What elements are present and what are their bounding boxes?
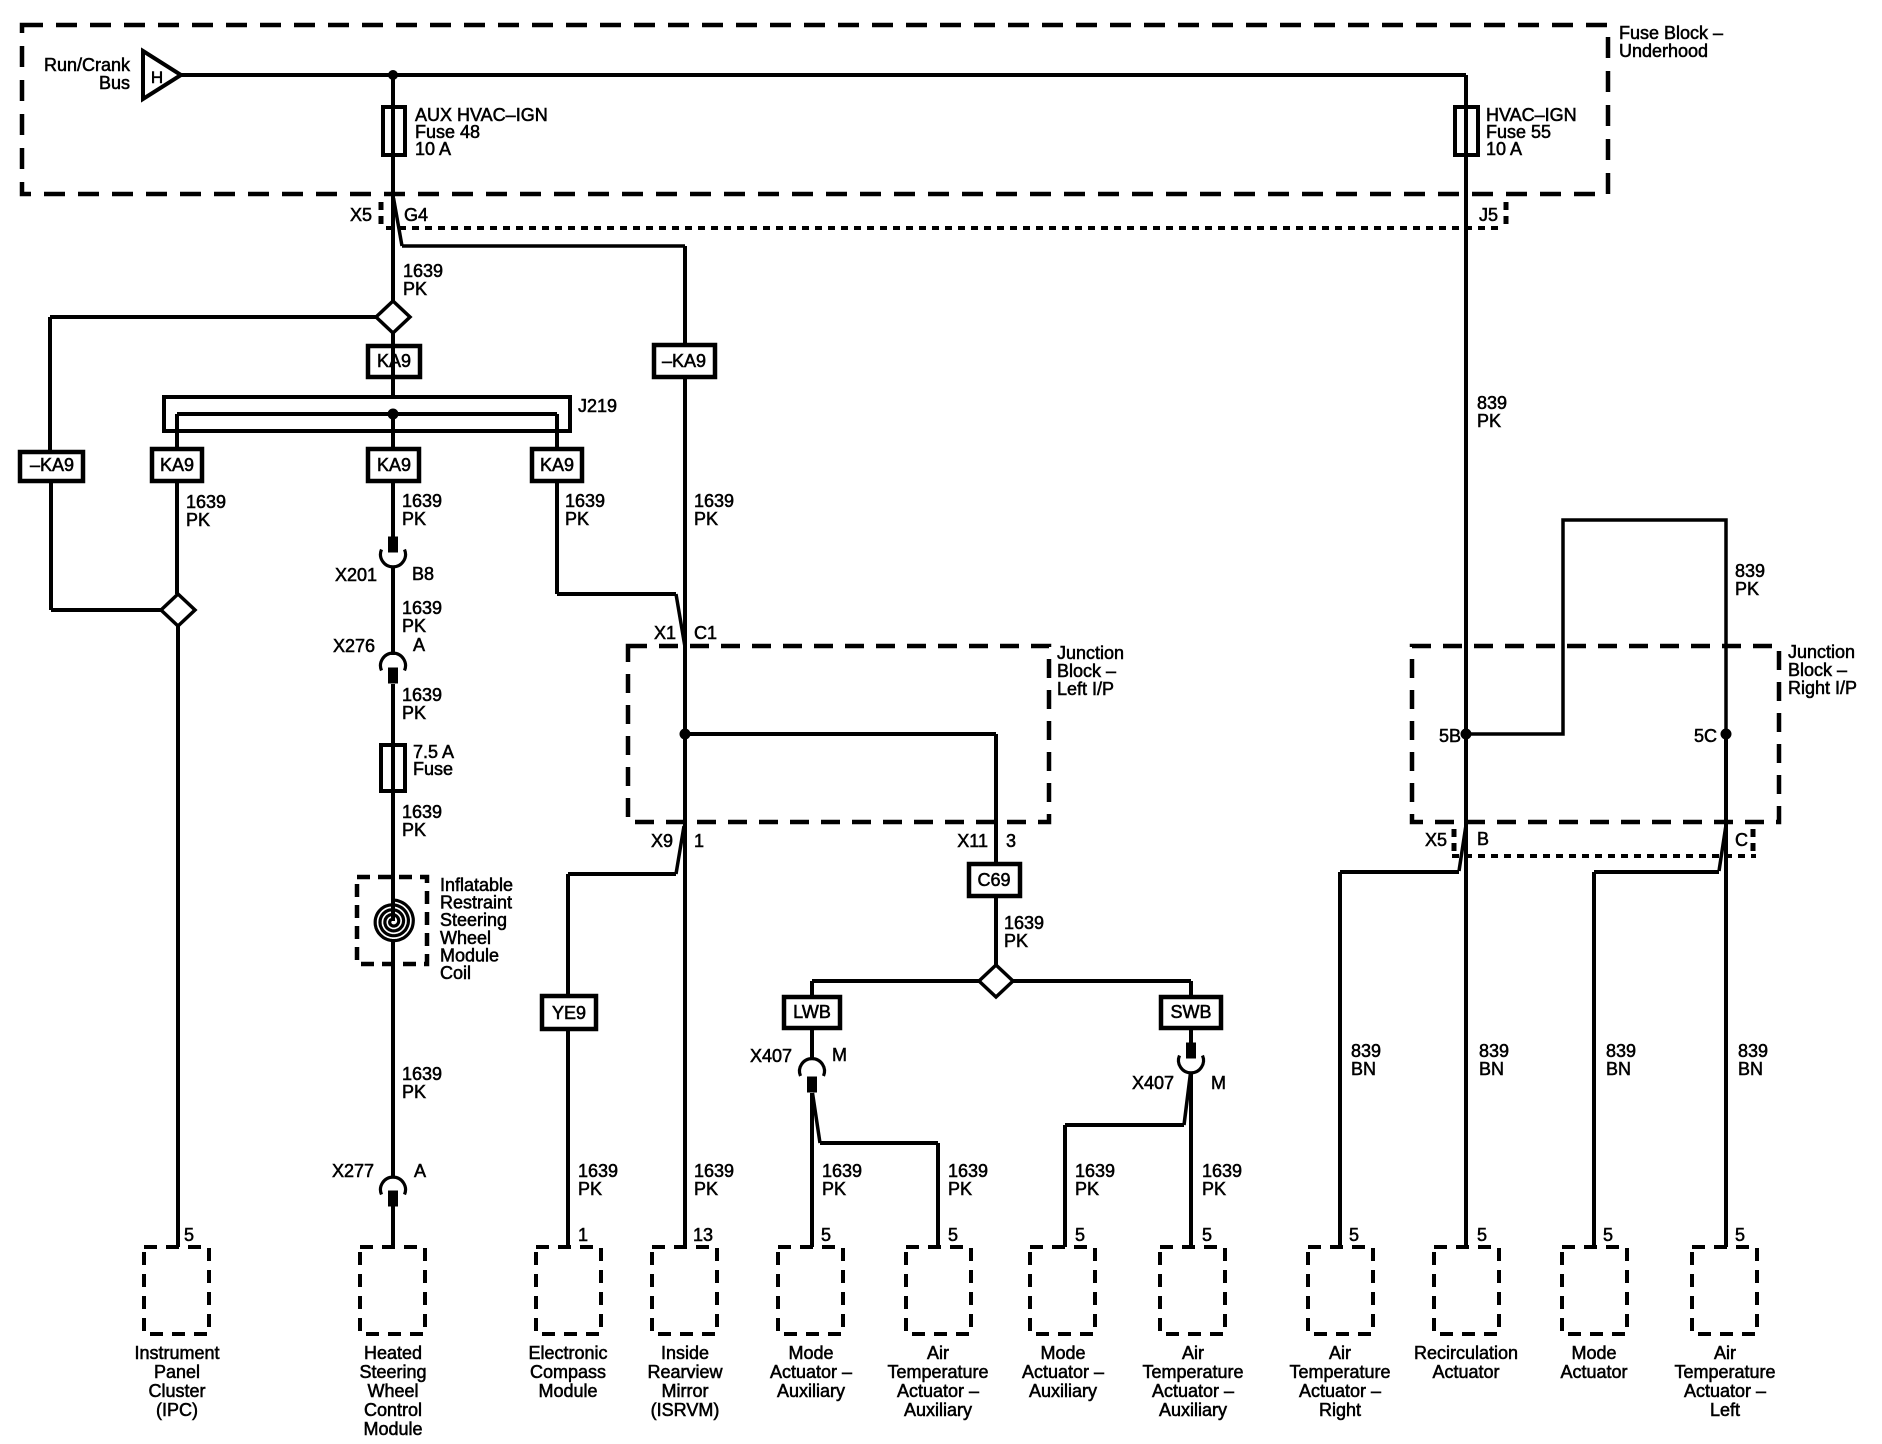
mode actuator - auxiliary 1	[778, 1247, 843, 1334]
svg-text:Auxiliary: Auxiliary	[1159, 1400, 1227, 1420]
wire: down to mode actuator	[1592, 872, 1596, 1247]
connector X407 pin M terminal (right)	[1187, 1043, 1196, 1058]
wire: S-path 5B to 5C	[1466, 520, 1726, 734]
wire: down to air temp aux 1	[936, 1143, 940, 1247]
air temperature actuator - auxiliary 2	[1160, 1247, 1225, 1334]
wire: jog into C1	[676, 594, 685, 647]
svg-text:Temperature: Temperature	[887, 1362, 988, 1382]
svg-text:J5: J5	[1479, 205, 1498, 225]
svg-text:X5: X5	[350, 205, 372, 225]
svg-text:X1: X1	[654, 623, 676, 643]
svg-text:Control: Control	[364, 1400, 422, 1420]
wire: down to YE9	[566, 874, 570, 996]
svg-text:KA9: KA9	[160, 455, 194, 475]
net label -KA9 (right)	[654, 345, 715, 377]
instrument panel cluster (IPC)	[144, 1247, 209, 1334]
wire: branch to YE9	[568, 872, 676, 876]
svg-text:1639: 1639	[694, 1161, 734, 1181]
wire: jog branch at C	[1719, 825, 1726, 871]
wire: -KA9 down through junction block to ISRVM	[683, 377, 687, 1247]
fuse 7.5 A	[381, 745, 405, 791]
svg-text:PK: PK	[402, 1082, 426, 1102]
wire: SWB to X407	[1189, 1028, 1193, 1043]
svg-text:Mode: Mode	[1571, 1343, 1616, 1363]
wire: to splice diamond left	[51, 608, 161, 612]
fuse block - underhood dashed outline	[22, 25, 1608, 194]
svg-text:PK: PK	[1477, 411, 1501, 431]
svg-text:5: 5	[1202, 1225, 1212, 1245]
wire: KA9 left down	[175, 481, 179, 594]
wire: B down to recirculation actuator	[1464, 822, 1468, 1247]
svg-text:1: 1	[578, 1225, 588, 1245]
wire: jog from X9 to compass branch	[676, 826, 684, 874]
wire through fuse 48 down to splice	[391, 75, 395, 301]
wire: X276 through 7.5A fuse into coil	[391, 684, 395, 921]
svg-text:5: 5	[184, 1225, 194, 1245]
splice diamond C69	[979, 965, 1013, 997]
svg-text:X277: X277	[332, 1161, 374, 1181]
svg-text:839: 839	[1606, 1041, 1636, 1061]
wire: diamond to LWB	[812, 979, 979, 983]
svg-text:G4: G4	[404, 205, 428, 225]
recirculation actuator	[1434, 1247, 1499, 1334]
svg-text:5: 5	[1349, 1225, 1359, 1245]
svg-text:Fuse Block –: Fuse Block –	[1619, 23, 1723, 43]
net label KA9 (right)	[532, 449, 582, 481]
svg-text:BN: BN	[1738, 1059, 1763, 1079]
connector X407 socket (right)	[1179, 1056, 1204, 1073]
inside rearview mirror (ISRVM)	[652, 1247, 717, 1334]
wire: down to left -KA9 box	[48, 317, 52, 452]
net label KA9 (left)	[152, 449, 202, 481]
wire: YE9 to compass module	[566, 1029, 570, 1247]
wire: X277 to module	[391, 1206, 395, 1247]
svg-text:Rearview: Rearview	[647, 1362, 723, 1382]
connector boundary dotted line X5 B/C	[1452, 854, 1756, 858]
svg-text:Air: Air	[1329, 1343, 1351, 1363]
wire: branch to air temp right	[1340, 870, 1459, 874]
wire: J219 to KA9 right	[555, 414, 559, 449]
junction block - left I/P dashed outline	[628, 646, 1049, 822]
svg-text:–KA9: –KA9	[662, 351, 706, 371]
svg-text:(ISRVM): (ISRVM)	[651, 1400, 720, 1420]
connector X407 pin M terminal (left)	[808, 1077, 817, 1092]
svg-text:Actuator: Actuator	[1432, 1362, 1499, 1382]
svg-text:Junction: Junction	[1057, 643, 1124, 663]
svg-text:C69: C69	[977, 870, 1010, 890]
svg-text:LWB: LWB	[793, 1002, 831, 1022]
splice diamond below G4	[376, 301, 410, 333]
svg-text:1639: 1639	[402, 1064, 442, 1084]
air temperature actuator - left	[1692, 1247, 1757, 1334]
splice pack J219	[164, 397, 570, 431]
connector X277 pin A terminal	[389, 1191, 398, 1206]
svg-text:Temperature: Temperature	[1142, 1362, 1243, 1382]
svg-text:Actuator –: Actuator –	[1684, 1381, 1766, 1401]
svg-text:Actuator –: Actuator –	[770, 1362, 852, 1382]
svg-text:Temperature: Temperature	[1674, 1362, 1775, 1382]
wire: run/crank bus	[181, 73, 1466, 77]
svg-text:1639: 1639	[578, 1161, 618, 1181]
svg-text:1639: 1639	[565, 491, 605, 511]
svg-text:PK: PK	[578, 1179, 602, 1199]
svg-text:PK: PK	[402, 703, 426, 723]
wire: diamond to left -KA9	[50, 315, 376, 319]
wire: diamond to J219	[391, 333, 395, 397]
wire: down to mode actuator aux 2	[1063, 1125, 1067, 1247]
svg-text:Actuator –: Actuator –	[897, 1381, 979, 1401]
Run/Crank Bus terminal H	[143, 51, 181, 99]
svg-text:C1: C1	[694, 623, 717, 643]
wire: jog branch from X407 left	[813, 1093, 821, 1143]
wire: branch to mode actuator aux 2	[1065, 1123, 1184, 1127]
junction dot 5B	[1461, 729, 1471, 739]
svg-text:X407: X407	[1132, 1073, 1174, 1093]
svg-text:839: 839	[1735, 561, 1765, 581]
heated steering wheel control module	[360, 1247, 425, 1334]
svg-text:KA9: KA9	[540, 455, 574, 475]
svg-text:1: 1	[694, 831, 704, 851]
wire: X407 to mode actuator aux 1	[810, 1093, 814, 1247]
svg-text:SWB: SWB	[1170, 1002, 1211, 1022]
svg-text:PK: PK	[1075, 1179, 1099, 1199]
svg-text:13: 13	[693, 1225, 713, 1245]
svg-text:PK: PK	[403, 279, 427, 299]
svg-text:Inside: Inside	[661, 1343, 709, 1363]
svg-text:PK: PK	[694, 509, 718, 529]
svg-text:–KA9: –KA9	[30, 455, 74, 475]
connector X277 socket	[381, 1177, 406, 1194]
wire: C69 to splice diamond	[994, 896, 998, 965]
svg-text:H: H	[151, 68, 163, 87]
svg-text:(IPC): (IPC)	[156, 1400, 198, 1420]
svg-text:Panel: Panel	[154, 1362, 200, 1382]
svg-text:A: A	[413, 635, 425, 655]
wire: J219 to KA9 centre	[391, 414, 395, 449]
J219 inner bus line	[177, 412, 557, 416]
svg-text:B8: B8	[412, 564, 434, 584]
connector X276 socket	[381, 653, 406, 670]
wire: branch to air temp aux 1	[820, 1141, 938, 1145]
svg-text:Mode: Mode	[1040, 1343, 1085, 1363]
fuse F48 AUX HVAC-IGN 10A	[383, 107, 405, 155]
svg-text:839: 839	[1738, 1041, 1768, 1061]
svg-text:1639: 1639	[402, 802, 442, 822]
wire: down to C69	[994, 734, 998, 864]
svg-text:PK: PK	[1202, 1179, 1226, 1199]
svg-text:C: C	[1735, 830, 1748, 850]
svg-text:Mode: Mode	[788, 1343, 833, 1363]
svg-text:Block –: Block –	[1788, 660, 1847, 680]
svg-text:Wheel: Wheel	[367, 1381, 418, 1401]
svg-text:Actuator –: Actuator –	[1022, 1362, 1104, 1382]
wire: X407 to air temp aux 2	[1189, 1073, 1193, 1247]
svg-text:X9: X9	[651, 831, 673, 851]
svg-text:Right: Right	[1319, 1400, 1361, 1420]
connector mark X5 (bottom)	[1452, 829, 1457, 855]
junction dot in left I/P block	[680, 729, 690, 739]
wire: LWB to X407	[810, 1028, 814, 1060]
wire: jog branch at B	[1459, 825, 1466, 871]
net label C69	[969, 864, 1020, 896]
wire: KA9 right to C1	[557, 592, 676, 596]
svg-text:5C: 5C	[1694, 726, 1717, 746]
svg-text:1639: 1639	[186, 492, 226, 512]
wire: down to air temp right	[1338, 872, 1342, 1247]
wire: KA9 centre down	[391, 481, 395, 537]
svg-text:Module: Module	[538, 1381, 597, 1401]
svg-text:Right I/P: Right I/P	[1788, 678, 1857, 698]
svg-text:Auxiliary: Auxiliary	[904, 1400, 972, 1420]
svg-text:X201: X201	[335, 565, 377, 585]
svg-text:BN: BN	[1351, 1059, 1376, 1079]
svg-text:PK: PK	[402, 509, 426, 529]
svg-text:5: 5	[1735, 1225, 1745, 1245]
svg-text:X407: X407	[750, 1046, 792, 1066]
svg-text:Underhood: Underhood	[1619, 41, 1708, 61]
inflatable restraint steering wheel module coil dashed box	[357, 877, 427, 964]
svg-text:PK: PK	[565, 509, 589, 529]
svg-text:YE9: YE9	[552, 1003, 586, 1023]
svg-text:1639: 1639	[402, 685, 442, 705]
svg-text:PK: PK	[948, 1179, 972, 1199]
svg-text:5: 5	[1603, 1225, 1613, 1245]
svg-text:839: 839	[1351, 1041, 1381, 1061]
svg-text:Compass: Compass	[530, 1362, 606, 1382]
svg-text:BN: BN	[1606, 1059, 1631, 1079]
junction block - right I/P dashed outline	[1412, 646, 1779, 822]
wire: jog branch from X407 right	[1184, 1073, 1191, 1125]
svg-text:BN: BN	[1479, 1059, 1504, 1079]
svg-text:Heated: Heated	[364, 1343, 422, 1363]
svg-text:X11: X11	[957, 831, 988, 851]
svg-text:10 A: 10 A	[415, 139, 451, 159]
svg-text:Block –: Block –	[1057, 661, 1116, 681]
connector X276 pin A terminal	[389, 668, 398, 683]
svg-text:Air: Air	[1714, 1343, 1736, 1363]
wire: -KA9 down	[49, 481, 53, 610]
svg-text:Recirculation: Recirculation	[1414, 1343, 1518, 1363]
svg-text:1639: 1639	[948, 1161, 988, 1181]
svg-text:PK: PK	[694, 1179, 718, 1199]
wire: coil to X277	[391, 942, 395, 1178]
wire: X201 to X276	[391, 566, 395, 655]
svg-text:M: M	[1211, 1073, 1226, 1093]
svg-text:3: 3	[1006, 831, 1016, 851]
svg-text:1639: 1639	[402, 491, 442, 511]
wire: branch to mode actuator	[1594, 870, 1719, 874]
wire: KA9 right down	[555, 481, 559, 594]
svg-text:Mirror: Mirror	[662, 1381, 709, 1401]
svg-text:Temperature: Temperature	[1289, 1362, 1390, 1382]
svg-text:Junction: Junction	[1788, 642, 1855, 662]
svg-text:Coil: Coil	[440, 963, 471, 983]
svg-text:KA9: KA9	[377, 455, 411, 475]
svg-text:PK: PK	[186, 510, 210, 530]
connector mark at C	[1751, 829, 1756, 855]
svg-text:1639: 1639	[1004, 913, 1044, 933]
connector X407 socket (left)	[800, 1059, 825, 1076]
wire: into LWB	[810, 981, 814, 997]
svg-text:PK: PK	[1735, 579, 1759, 599]
svg-text:Auxiliary: Auxiliary	[777, 1381, 845, 1401]
svg-text:Auxiliary: Auxiliary	[1029, 1381, 1097, 1401]
connector X201 socket	[381, 550, 406, 567]
svg-text:1639: 1639	[822, 1161, 862, 1181]
svg-text:Module: Module	[363, 1419, 422, 1439]
wire: diamond to SWB	[1013, 979, 1191, 983]
svg-text:Left I/P: Left I/P	[1057, 679, 1114, 699]
svg-text:Fuse: Fuse	[413, 759, 453, 779]
connector X201 pin B8 terminal	[389, 537, 398, 552]
svg-text:X276: X276	[333, 636, 375, 656]
junction dot 5C	[1721, 729, 1731, 739]
coil spiral symbol	[375, 900, 413, 941]
wire: splice to IPC	[176, 626, 180, 1247]
wire: down to -KA9 box	[683, 246, 687, 345]
svg-text:Air: Air	[927, 1343, 949, 1363]
connector boundary dotted line X5/J5	[386, 226, 1502, 230]
fuse F55 HVAC-IGN 10A	[1455, 107, 1478, 155]
net label SWB	[1161, 997, 1221, 1028]
svg-text:PK: PK	[822, 1179, 846, 1199]
wire: branch to X11	[685, 732, 996, 736]
svg-text:Actuator –: Actuator –	[1299, 1381, 1381, 1401]
svg-text:PK: PK	[1004, 931, 1028, 951]
net label -KA9 (far left)	[20, 452, 83, 481]
svg-text:Cluster: Cluster	[148, 1381, 205, 1401]
svg-text:1639: 1639	[1075, 1161, 1115, 1181]
net label LWB	[784, 997, 840, 1028]
mode actuator	[1562, 1247, 1627, 1334]
net label KA9 (upper)	[368, 346, 420, 377]
wire: 5C down to C exit	[1724, 734, 1728, 822]
svg-text:Electronic: Electronic	[528, 1343, 607, 1363]
svg-text:839: 839	[1479, 1041, 1509, 1061]
svg-text:PK: PK	[402, 616, 426, 636]
air temperature actuator - auxiliary 1	[906, 1247, 971, 1334]
net label YE9	[542, 996, 596, 1029]
air temperature actuator - right	[1308, 1247, 1373, 1334]
svg-text:Instrument: Instrument	[134, 1343, 219, 1363]
svg-text:10 A: 10 A	[1486, 139, 1522, 159]
svg-text:1639: 1639	[403, 261, 443, 281]
svg-text:Steering: Steering	[359, 1362, 426, 1382]
wire through fuse 55 down right junction block	[1464, 75, 1468, 822]
svg-text:Actuator –: Actuator –	[1152, 1381, 1234, 1401]
svg-text:PK: PK	[402, 820, 426, 840]
svg-text:5: 5	[1075, 1225, 1085, 1245]
svg-text:839: 839	[1477, 393, 1507, 413]
electronic compass module	[536, 1247, 601, 1334]
junction on bus at fuse 48	[389, 71, 398, 80]
svg-text:1639: 1639	[1202, 1161, 1242, 1181]
junction dot on J219	[388, 409, 398, 419]
wire: into SWB	[1189, 981, 1193, 997]
svg-text:M: M	[832, 1045, 847, 1065]
svg-text:1639: 1639	[694, 491, 734, 511]
svg-text:Bus: Bus	[99, 73, 130, 93]
svg-text:J219: J219	[578, 396, 617, 416]
splice diamond left	[161, 594, 195, 626]
svg-text:A: A	[414, 1161, 426, 1181]
svg-text:B: B	[1477, 829, 1489, 849]
svg-text:Air: Air	[1182, 1343, 1204, 1363]
net label KA9 (centre)	[368, 449, 419, 481]
svg-text:5: 5	[1477, 1225, 1487, 1245]
svg-text:Run/Crank: Run/Crank	[44, 55, 131, 75]
svg-text:Left: Left	[1710, 1400, 1740, 1420]
wire: J219 to KA9 left	[175, 414, 179, 449]
wire: branch jog below G4	[394, 198, 403, 246]
svg-text:5B: 5B	[1439, 726, 1461, 746]
svg-text:Actuator: Actuator	[1560, 1362, 1627, 1382]
svg-text:5: 5	[821, 1225, 831, 1245]
connector mark at X5 G4	[379, 202, 384, 228]
wire: branch to -KA9 right	[402, 244, 685, 248]
connector mark at J5	[1504, 202, 1509, 228]
wire: C down to air temp left	[1724, 822, 1728, 1247]
mode actuator - auxiliary 2	[1030, 1247, 1095, 1334]
svg-text:5: 5	[948, 1225, 958, 1245]
svg-text:1639: 1639	[402, 598, 442, 618]
svg-text:X5: X5	[1425, 830, 1447, 850]
